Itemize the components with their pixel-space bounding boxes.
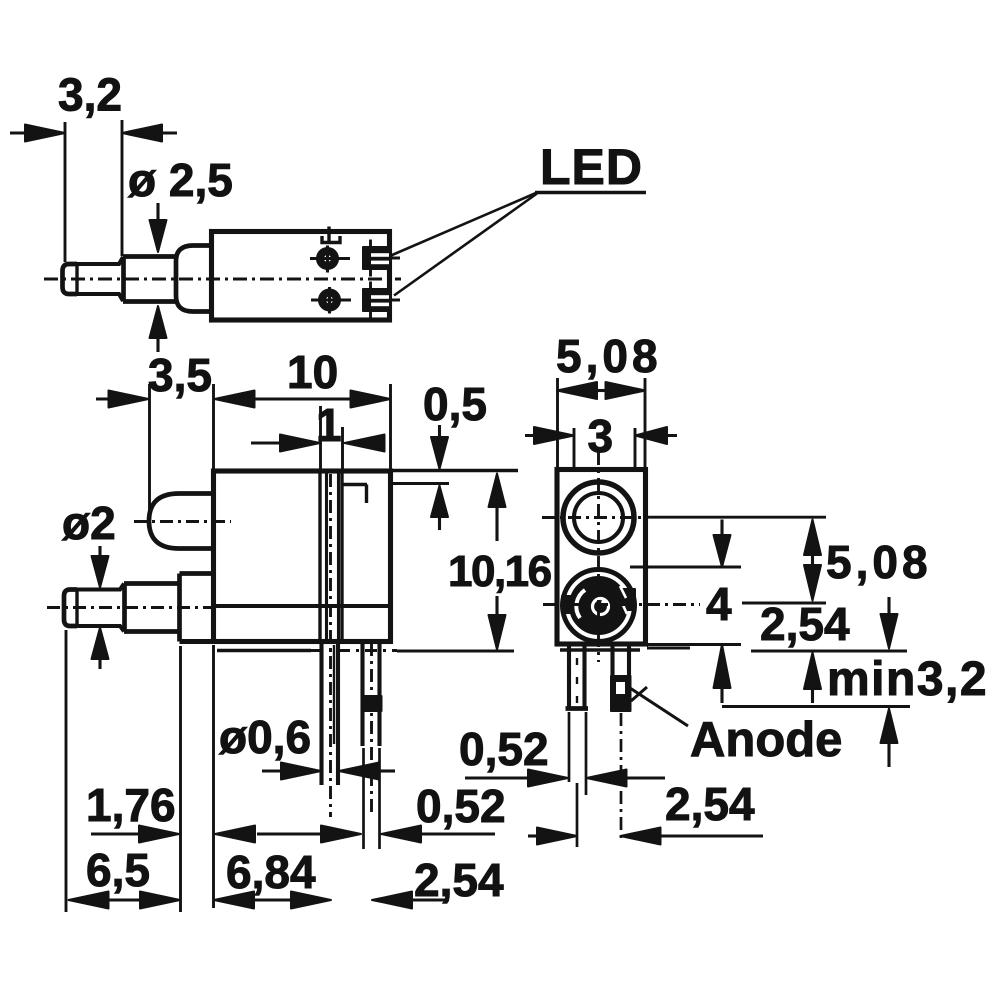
center axis line	[44, 278, 401, 281]
dimension 0,5 arrows	[438, 425, 441, 438]
svg-text:2,54: 2,54	[665, 778, 755, 830]
dome center line	[134, 520, 231, 523]
body bottom second line	[560, 648, 640, 651]
pin 2 extension lines	[364, 748, 380, 849]
hole 1	[317, 248, 338, 269]
front pin cap	[64, 590, 77, 627]
extension line step right	[392, 482, 449, 485]
svg-text:6,84: 6,84	[226, 846, 316, 898]
dimension 3,2 line	[10, 131, 177, 134]
dimension 3,2 right arrow	[122, 125, 162, 142]
extension line lens top	[630, 566, 741, 569]
cathode notch	[322, 236, 340, 243]
svg-text:ø2: ø2	[62, 497, 116, 549]
dimension row 834 left	[91, 832, 321, 835]
channel inner leg lines	[327, 471, 339, 642]
parting line	[214, 604, 391, 608]
svg-text:Anode: Anode	[690, 713, 842, 767]
front pin ferrule	[124, 584, 180, 632]
pin collar	[176, 246, 212, 312]
svg-text:2,54: 2,54	[760, 598, 850, 650]
cathode notch tick	[327, 227, 330, 243]
dimension ø2,5 down arrow	[156, 203, 159, 223]
extension line dome left	[148, 384, 151, 524]
pin 1 (cathode lead)	[322, 643, 339, 785]
svg-text:5,08: 5,08	[556, 330, 662, 382]
svg-text:0,5: 0,5	[423, 378, 487, 430]
extension line pin tip	[64, 122, 67, 262]
leg 2 (anode)	[613, 646, 630, 710]
extension lines body top	[558, 378, 646, 470]
hole 2	[319, 290, 340, 311]
extension line body left bottom	[212, 645, 215, 908]
pin body	[77, 257, 123, 301]
dimension 1 arrows	[251, 441, 280, 444]
vertical center line	[597, 452, 600, 662]
dimension 5,08 top arrows	[597, 389, 606, 392]
dimension 3,2 left arrow	[25, 125, 65, 142]
LED 2 lens (bottom, dark)	[563, 570, 635, 642]
dimension ø2,5 up arrow	[150, 306, 167, 338]
dimension 10,16 arrows	[489, 474, 506, 508]
dimension 3 arrows	[525, 434, 677, 437]
svg-text:ø 2,5: ø 2,5	[128, 154, 233, 206]
LED pointer line 1	[391, 193, 536, 256]
svg-text:2,54: 2,54	[414, 854, 504, 906]
housing body outline	[212, 232, 390, 321]
dimension 0,52 row (right legs)	[465, 776, 530, 779]
dimension 5,08 right arrows	[804, 520, 821, 556]
LED pad 2	[363, 289, 389, 311]
front flange	[180, 574, 214, 642]
pin 2 center line	[370, 643, 373, 816]
svg-text:1,76: 1,76	[86, 779, 176, 831]
bottom edge extension	[180, 639, 214, 644]
leg extension lines	[569, 712, 586, 847]
LED dome profile	[149, 494, 213, 549]
right view body outline	[557, 470, 646, 645]
svg-text:3,2: 3,2	[58, 69, 122, 121]
seating plane line	[217, 649, 311, 652]
LED 1 lens (top)	[563, 482, 634, 553]
LED2 center line	[543, 603, 700, 606]
pin ferrule	[123, 257, 175, 302]
extension line body right	[389, 384, 392, 471]
svg-text:10: 10	[287, 346, 338, 398]
extension line body left	[212, 384, 215, 471]
dimension row 3,5 / 10	[96, 397, 351, 400]
inner step line	[342, 485, 367, 504]
svg-text:0,52: 0,52	[459, 723, 549, 775]
pin 2 bend	[362, 696, 382, 711]
pin 2 (anode lead)	[363, 643, 380, 746]
LED label underline	[535, 191, 646, 194]
dimension ø0,6 arrows	[262, 769, 283, 772]
pin tip cap	[63, 264, 78, 294]
svg-text:10,16: 10,16	[448, 547, 551, 596]
svg-text:ø0,6: ø0,6	[219, 711, 311, 763]
svg-text:3,5: 3,5	[148, 349, 212, 401]
svg-text:min3,2: min3,2	[827, 653, 988, 706]
pin axis center line	[47, 606, 212, 609]
Anode pointer	[630, 688, 688, 726]
extension line body bottom right	[648, 643, 741, 646]
dimension 2,54 down arrow	[887, 597, 890, 614]
front pin body	[77, 584, 124, 632]
leg 1 (cathode)	[569, 646, 585, 708]
body bottom extension	[647, 647, 690, 650]
min3,2 lower arrow	[881, 709, 898, 744]
svg-text:6,5: 6,5	[86, 844, 150, 896]
extension line pin end	[121, 120, 124, 256]
dimension row 836 right (right-view legs)	[528, 834, 539, 837]
LED1 center line	[542, 516, 648, 519]
svg-text:5,08: 5,08	[826, 536, 932, 588]
seating plane extension	[751, 650, 907, 653]
LED pointer line 2	[394, 194, 537, 296]
svg-text:LED: LED	[540, 139, 643, 195]
lead end extension line	[722, 705, 910, 708]
extension line pin tip bottom	[65, 630, 68, 912]
front body outline	[214, 471, 391, 642]
svg-text:4: 4	[706, 578, 732, 630]
dimension ø2 arrows	[98, 546, 101, 557]
LED pad 1	[363, 247, 389, 269]
min3,2 upper arrow	[804, 653, 821, 690]
leg 2 bend line	[631, 687, 647, 701]
svg-text:3: 3	[588, 410, 614, 462]
channel center line	[329, 474, 332, 817]
dimension row 900	[108, 898, 449, 901]
dimension 4 arrows	[720, 520, 723, 536]
extension line top edge right	[392, 469, 518, 472]
svg-text:0,52: 0,52	[416, 780, 506, 832]
channel walls	[320, 471, 342, 642]
extension line flange bottom	[179, 646, 182, 912]
